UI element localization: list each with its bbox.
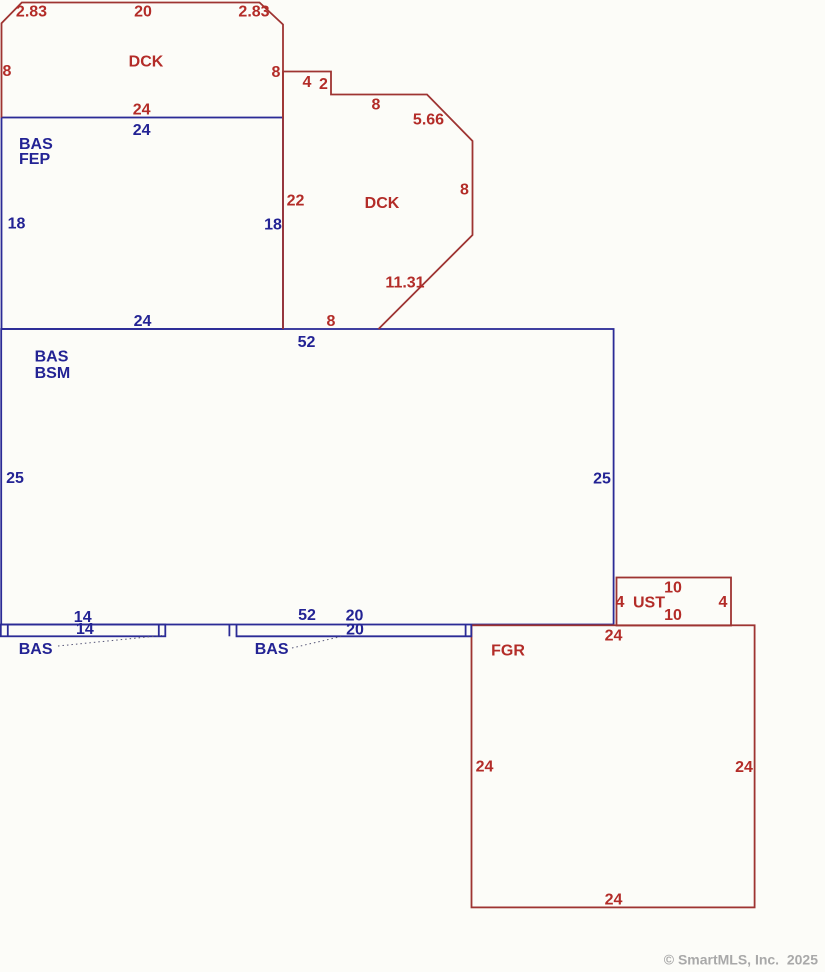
deck DCK right polygon outline (283, 72, 473, 330)
lone tick left of strip 2 (228, 625, 230, 637)
svg-text:2.83: 2.83 (16, 4, 47, 21)
svg-text:BAS: BAS (19, 641, 53, 658)
strip 1 inner tick right (158, 625, 160, 637)
svg-text:24: 24 (134, 313, 152, 330)
svg-text:52: 52 (298, 607, 316, 624)
svg-text:24: 24 (133, 101, 151, 118)
svg-text:8: 8 (460, 182, 469, 199)
svg-text:24: 24 (476, 759, 494, 776)
svg-text:8: 8 (3, 63, 12, 80)
svg-text:24: 24 (133, 122, 151, 139)
BAS FEP rectangle (2, 118, 284, 330)
UST rectangle (617, 578, 732, 626)
svg-text:2.83: 2.83 (238, 4, 269, 21)
FGR rectangle (472, 625, 755, 907)
dotted leader to strip 2 (292, 637, 341, 649)
svg-text:4: 4 (303, 74, 312, 91)
svg-text:5.66: 5.66 (413, 112, 444, 129)
svg-text:10: 10 (664, 607, 682, 624)
svg-text:BSM: BSM (35, 365, 71, 382)
svg-text:8: 8 (327, 313, 336, 330)
BAS strip 1 bottom-left bump-out (1, 625, 166, 637)
svg-text:FGR: FGR (491, 643, 525, 660)
BAS BSM rectangle (1, 329, 613, 625)
svg-text:4: 4 (719, 594, 728, 611)
svg-text:25: 25 (593, 471, 611, 488)
strip 1 inner tick left (7, 625, 9, 637)
svg-text:8: 8 (272, 64, 281, 81)
svg-text:18: 18 (264, 217, 282, 234)
svg-text:4: 4 (616, 594, 625, 611)
svg-text:14: 14 (76, 621, 94, 638)
svg-text:8: 8 (372, 97, 381, 114)
svg-text:© SmartMLS, Inc. 2025: © SmartMLS, Inc. 2025 (664, 952, 818, 968)
svg-text:52: 52 (298, 334, 316, 351)
deck DCK top-left outline (2, 3, 284, 118)
svg-text:UST: UST (633, 595, 665, 612)
svg-text:FEP: FEP (19, 151, 50, 168)
svg-text:DCK: DCK (365, 195, 400, 212)
svg-text:BAS: BAS (255, 641, 289, 658)
svg-text:20: 20 (346, 621, 364, 638)
svg-text:24: 24 (605, 628, 623, 645)
svg-text:BAS: BAS (35, 349, 69, 366)
dotted leader to strip 1 (58, 636, 162, 647)
svg-text:2: 2 (319, 76, 328, 93)
strip 2 inner tick right (465, 625, 467, 637)
svg-text:10: 10 (664, 580, 682, 597)
svg-text:DCK: DCK (129, 54, 164, 71)
svg-text:24: 24 (605, 892, 623, 909)
svg-text:20: 20 (134, 4, 152, 21)
svg-text:25: 25 (6, 470, 24, 487)
svg-text:18: 18 (8, 215, 26, 232)
svg-text:24: 24 (735, 759, 753, 776)
svg-text:22: 22 (287, 192, 305, 209)
svg-text:11.31: 11.31 (385, 275, 424, 292)
BAS strip 2 bump-out (237, 625, 472, 637)
